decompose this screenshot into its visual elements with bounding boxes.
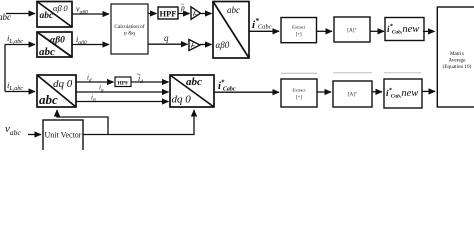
gain triangle (p path) xyxy=(191,7,201,19)
wire new-current to matrix average (top) xyxy=(423,30,435,32)
svg-text:Extract: Extract xyxy=(292,88,306,93)
wire i_d-tilde to dq0-to-abc block xyxy=(131,81,169,83)
svg-text:[+]: [+] xyxy=(296,33,302,38)
block [A]+ matrix (top) xyxy=(334,17,370,42)
wire i_q to dq0-to-abc block xyxy=(76,91,169,93)
wire i_Labc vertical branch xyxy=(4,45,6,92)
wire v_abc into abc-to-alphabeta0 voltage block xyxy=(6,13,35,15)
svg-text:HPF: HPF xyxy=(160,9,177,19)
wire i_alphabeta0 to calculation block xyxy=(72,44,109,46)
wire gain to alphabeta0-to-abc block (p path) xyxy=(201,13,212,15)
wire i_Labc into abc-to-dq0 block xyxy=(5,91,35,93)
svg-text:iL,abc: iL,abc xyxy=(7,33,23,45)
block HPF (i_d path) xyxy=(115,77,131,87)
svg-text:i*Cab,new: i*Cab,new xyxy=(387,23,419,36)
svg-text:HPF: HPF xyxy=(117,81,129,87)
svg-text:αβ0: αβ0 xyxy=(216,40,230,50)
svg-text:αβ 0: αβ 0 xyxy=(53,3,68,13)
wire v_alphabeta0 to calculation block xyxy=(72,13,109,15)
wire faint ghost segment above extract (bottom row artifact) xyxy=(281,72,317,74)
wire i*_Cabc (top row) to extract block xyxy=(249,30,279,32)
wire i_0 to dq0-to-abc block xyxy=(76,101,169,103)
svg-text:abc: abc xyxy=(40,11,55,21)
block i*_Cabc_new (bottom) xyxy=(384,79,422,108)
block unit vector xyxy=(43,120,83,152)
block Extract positive sequence (bottom) xyxy=(281,79,317,107)
svg-text:[A]+: [A]+ xyxy=(348,90,358,98)
svg-text:abc: abc xyxy=(39,46,55,58)
svg-text:αβ0: αβ0 xyxy=(50,36,65,46)
svg-text:(Equation 16): (Equation 16) xyxy=(443,63,472,70)
svg-text:abc: abc xyxy=(227,5,240,15)
svg-text:Extract: Extract xyxy=(292,25,306,30)
wire q to gain xyxy=(148,43,188,45)
wire unit vector output to dq0-to-abc block bottom xyxy=(83,110,194,135)
svg-text:i*Cab,new: i*Cab,new xyxy=(386,87,418,100)
wire A-matrix to new-current box (bottom) xyxy=(372,91,382,93)
wire new-current to matrix average (bottom) xyxy=(422,90,435,92)
svg-text:dq 0: dq 0 xyxy=(172,94,192,106)
svg-text:vabc: vabc xyxy=(5,123,21,137)
block HPF (p path) xyxy=(158,7,178,19)
svg-text:[+]: [+] xyxy=(296,96,302,101)
wire A-matrix to new-current box (top) xyxy=(370,30,384,32)
block T2 abc to alphabeta0 (current transform) xyxy=(37,32,72,57)
block T5 dq0 to abc (inverse transform) xyxy=(170,75,214,107)
block T1 abc to alphabeta0 (voltage transform) xyxy=(37,2,72,28)
svg-text:Average: Average xyxy=(448,58,466,64)
block [A]+ matrix (bottom) xyxy=(333,81,372,107)
svg-text:iαβ0: iαβ0 xyxy=(76,35,87,46)
svg-text:Unit Vector: Unit Vector xyxy=(45,131,82,140)
wire p-tilde to gain xyxy=(178,13,190,15)
svg-text:p &q: p &q xyxy=(124,31,135,37)
svg-text:Calculation of: Calculation of xyxy=(114,23,144,30)
wire v_abc into unit vector block xyxy=(28,134,41,136)
wire i_d to HPF xyxy=(76,81,114,83)
wire faint ghost segment above new-current box (bottom row artifact) xyxy=(384,72,421,74)
block T4 abc to dq0 xyxy=(37,75,76,107)
svg-text:dq 0: dq 0 xyxy=(53,78,73,90)
block calculation of p and q xyxy=(111,4,148,54)
wire extract to A-matrix (top) xyxy=(317,30,333,32)
svg-text:~: ~ xyxy=(137,71,141,79)
svg-text:iL,abc: iL,abc xyxy=(7,80,23,92)
svg-text:i*Cabc: i*Cabc xyxy=(218,79,236,93)
svg-text:abc: abc xyxy=(186,76,202,88)
svg-text:~: ~ xyxy=(181,2,185,9)
svg-text:q: q xyxy=(164,33,169,43)
block Extract positive sequence (top) xyxy=(281,18,317,43)
block i*_Cabc_new (top) xyxy=(385,18,424,41)
block matrix average equation 16 xyxy=(437,7,474,107)
wire i_Labc into abc-to-alphabeta0 current block xyxy=(5,44,35,46)
block T3 alphabeta0 to abc (inverse transform) xyxy=(213,2,249,59)
wire gain to alphabeta0-to-abc block (q path) xyxy=(200,44,212,46)
svg-text:[A]+: [A]+ xyxy=(347,26,357,34)
wire unit vector branch to abc-to-dq0 block bottom xyxy=(57,110,108,135)
svg-text:i*Cabc: i*Cabc xyxy=(252,16,272,31)
gain triangle (q path) xyxy=(189,40,200,51)
wire extract to A-matrix (bottom) xyxy=(317,91,331,93)
wire i*_Cabc (bottom row) to extract block xyxy=(214,91,279,93)
wire p to HPF xyxy=(148,13,157,15)
svg-text:Matrix: Matrix xyxy=(450,51,465,57)
svg-text:abc: abc xyxy=(39,92,58,107)
wire faint ghost segment above A-matrix (bottom row artifact) xyxy=(333,72,372,74)
